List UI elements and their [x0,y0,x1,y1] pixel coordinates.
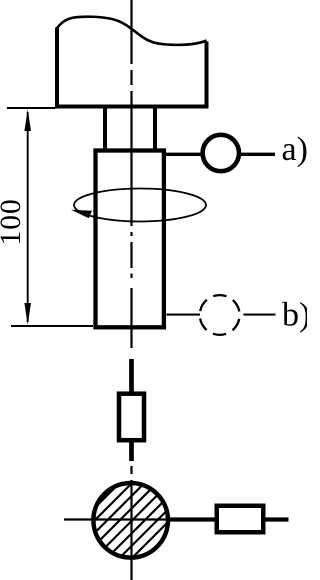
svg-text:a): a) [282,131,308,168]
svg-text:b): b) [282,296,307,333]
svg-text:100: 100 [0,198,27,245]
